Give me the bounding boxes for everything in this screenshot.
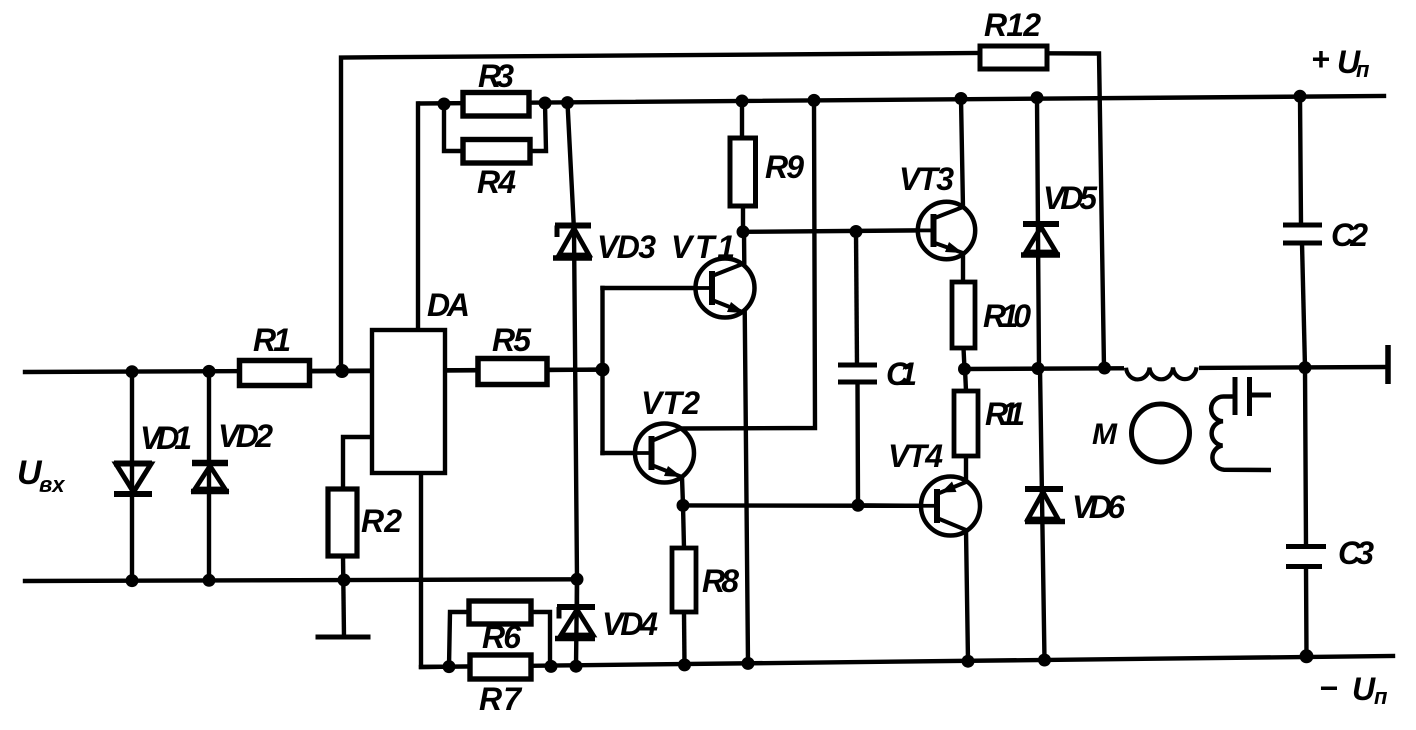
wire VT2 emitter down — [682, 477, 683, 505]
svg-text:+: + — [1311, 41, 1330, 77]
svg-text:R11: R11 — [985, 396, 1025, 432]
node junction C1 bottom — [852, 499, 865, 512]
motor suppression coil — [1211, 396, 1271, 470]
svg-text:VD6: VD6 — [1072, 489, 1125, 525]
wire R6 bracket right — [531, 612, 550, 666]
wire bottom rail — [421, 656, 1393, 667]
resistor R9 — [730, 138, 756, 206]
wire DA top feed — [416, 104, 420, 332]
wire VD6 vertical — [1040, 369, 1045, 661]
wire VT1 base — [603, 286, 697, 290]
node junction bottom input rail / VD2 — [203, 574, 216, 587]
wire R8 top — [683, 505, 684, 548]
wire right mid rail — [965, 367, 1387, 369]
wire VD5 vertical — [1037, 98, 1039, 369]
wire R11 top — [965, 369, 966, 391]
node junction bottom input rail / VD1 — [126, 574, 139, 587]
resistor R11 — [954, 391, 978, 456]
node junction bottom rail / VD4 — [570, 660, 583, 673]
wire R9 top — [740, 101, 744, 138]
svg-text:R1: R1 — [253, 322, 291, 358]
capacitor C1 — [838, 365, 877, 382]
resistor R12 — [980, 46, 1047, 69]
wire R12 right to mid rail vertical — [1047, 53, 1104, 368]
wire C2 to mid — [1302, 243, 1305, 368]
wire VT2 base — [603, 451, 636, 455]
wire C1 top vertical — [856, 232, 857, 366]
zener diode VD3 — [553, 226, 592, 259]
svg-text:−: − — [1319, 670, 1338, 706]
ground — [318, 635, 368, 640]
node junction R10 / R11 output node — [958, 363, 971, 376]
wire DA output to R5 — [445, 368, 479, 373]
resistor R10 — [952, 282, 975, 348]
wire C2 vertical top — [1300, 96, 1301, 225]
svg-text:DA: DA — [427, 287, 470, 323]
capacitor C3 — [1286, 547, 1326, 567]
wire C3 bottom — [1304, 567, 1309, 657]
wire base vertical VT1 VT2 — [600, 288, 604, 453]
svg-text:VD2: VD2 — [218, 418, 273, 454]
wire R5 to base junction — [545, 367, 603, 372]
capacitor C2 — [1283, 225, 1322, 243]
node junction bottom rail / VT4 collector — [962, 655, 975, 668]
svg-text:R12: R12 — [984, 7, 1041, 43]
transistor VT4 — [921, 477, 980, 536]
motor suppression capacitor — [1235, 377, 1271, 416]
wire emitter rail y505 — [683, 503, 921, 508]
transistor VT1 — [696, 259, 755, 318]
node junction mid rail / VD1 — [126, 365, 139, 378]
svg-text:R4: R4 — [477, 164, 516, 200]
node junction bottom rail / VD6 — [1038, 654, 1051, 667]
svg-text:VD5: VD5 — [1043, 180, 1098, 216]
node junction R5 / VT1 VT2 base — [596, 363, 610, 377]
svg-text:R3: R3 — [478, 58, 514, 94]
zener diode VD4 — [555, 607, 595, 639]
node junction bottom input rail / R2 — [338, 574, 351, 587]
node junction top rail / R4 left bracket — [438, 98, 451, 111]
node junction top rail / VD5 — [1031, 91, 1044, 104]
node junction VT2 emitter / R8 — [677, 499, 690, 512]
wire VD2 vertical — [207, 371, 211, 580]
resistor R3 — [463, 93, 529, 117]
node junction mid rail / top feedback wire — [335, 364, 349, 378]
wire top rail — [419, 96, 1384, 104]
wire R6 bracket left — [449, 612, 469, 667]
wire VD4 bottom lead — [575, 579, 579, 606]
node junction bottom rail / R6 right bracket — [545, 660, 558, 673]
wire DA bottom vertical — [421, 473, 449, 667]
wire R8 bottom — [682, 612, 687, 665]
node junction bottom rail / R6 left bracket — [443, 660, 456, 673]
node junction top rail / VT3 collector — [955, 92, 968, 105]
wire mid input rail — [25, 370, 603, 372]
wire R11 to VT4 emitter — [964, 456, 968, 482]
wire C1 bottom vertical — [855, 382, 860, 505]
node junction bottom rail / R8 — [678, 658, 691, 671]
resistor R4 — [463, 140, 530, 164]
wire R10 bottom — [964, 348, 965, 369]
svg-text:VT2: VT2 — [641, 385, 700, 421]
svg-text:C2: C2 — [1331, 217, 1368, 253]
svg-text:п: п — [1356, 57, 1370, 82]
wire VT2 collector — [681, 100, 815, 428]
svg-text:R10: R10 — [983, 298, 1031, 334]
wire R4 left bracket — [444, 104, 465, 151]
node junction output wire / VD5 VD6 — [1032, 362, 1045, 375]
node junction output wire / R12 — [1098, 362, 1111, 375]
svg-text:R7: R7 — [479, 681, 523, 717]
node junction top rail / C2 — [1294, 90, 1307, 103]
resistor R6 — [469, 601, 531, 624]
wire VT1 collector-emitter vertical — [744, 232, 748, 664]
node junction top rail / VD3 — [561, 96, 574, 109]
svg-text:M: M — [1092, 418, 1118, 451]
node junction bottom rail / C3 — [1300, 649, 1314, 663]
svg-text:R6: R6 — [482, 619, 521, 655]
wire bottom input rail — [25, 579, 577, 581]
diode VD6 — [1025, 489, 1065, 522]
svg-text:VD1: VD1 — [140, 420, 192, 456]
op-amp DA box — [372, 330, 445, 473]
svg-text:C1: C1 — [886, 356, 917, 392]
wire VD3 VD4 vertical — [568, 103, 578, 666]
svg-text:U: U — [1352, 671, 1376, 707]
node junction mid rail / VD2 — [203, 365, 216, 378]
svg-text:R5: R5 — [492, 322, 532, 358]
resistor R5 — [478, 359, 547, 385]
wire VT3 emitter to R10 — [961, 252, 965, 282]
wire R1 to DA — [307, 369, 372, 374]
inductor L on mid rail — [1124, 364, 1199, 379]
wire VT4 emitter rail y505 continues — [858, 503, 921, 508]
wire R2 tap from DA — [343, 437, 372, 489]
wire R2 bottom to ground — [343, 556, 344, 637]
svg-text:C3: C3 — [1338, 535, 1374, 571]
svg-text:вх: вх — [39, 472, 65, 497]
svg-text:R9: R9 — [765, 149, 804, 185]
svg-text:VD4: VD4 — [602, 606, 658, 642]
diode VD2 — [191, 463, 229, 492]
node junction top rail / R9 — [736, 95, 749, 108]
svg-text:VT4: VT4 — [888, 438, 943, 474]
wire R4 right bracket — [528, 103, 546, 151]
transistor VT3 — [918, 202, 975, 259]
wire VT4 collector down — [966, 530, 968, 661]
node junction C1 top — [850, 225, 863, 238]
node junction top rail / R4 right bracket — [539, 97, 552, 110]
wire VT1 collector to VT3 base — [743, 230, 918, 231]
svg-text:VT3: VT3 — [899, 161, 954, 197]
resistor R7 — [470, 655, 531, 679]
node junction bottom rail / VT1 emitter — [742, 657, 755, 670]
resistor R2 — [328, 489, 357, 556]
terminal bar right — [1385, 345, 1391, 384]
node junction R9 / VT1 collector — [737, 225, 750, 238]
svg-text:п: п — [1374, 684, 1388, 709]
wire VD1 vertical — [130, 372, 134, 581]
diode VD5 — [1021, 224, 1060, 255]
wire R9 bottom — [741, 206, 745, 232]
node junction output wire / C2 C3 — [1299, 361, 1312, 374]
wire C3 top — [1305, 368, 1306, 546]
svg-text:VD3: VD3 — [597, 229, 656, 265]
resistor R1 — [240, 361, 310, 386]
node junction top rail / VT2 collector line — [808, 94, 821, 107]
diode VD1 — [114, 464, 152, 495]
motor M — [1132, 404, 1190, 462]
svg-text:R8: R8 — [702, 563, 739, 599]
resistor R8 — [672, 548, 696, 612]
node junction bottom input rail / VD4 — [571, 573, 584, 586]
svg-text:R2: R2 — [361, 503, 402, 539]
wire top long feedback wire — [341, 53, 980, 371]
svg-text:VT1: VT1 — [671, 229, 735, 265]
wire VT3 collector — [961, 99, 963, 209]
transistor VT2 — [635, 424, 694, 483]
